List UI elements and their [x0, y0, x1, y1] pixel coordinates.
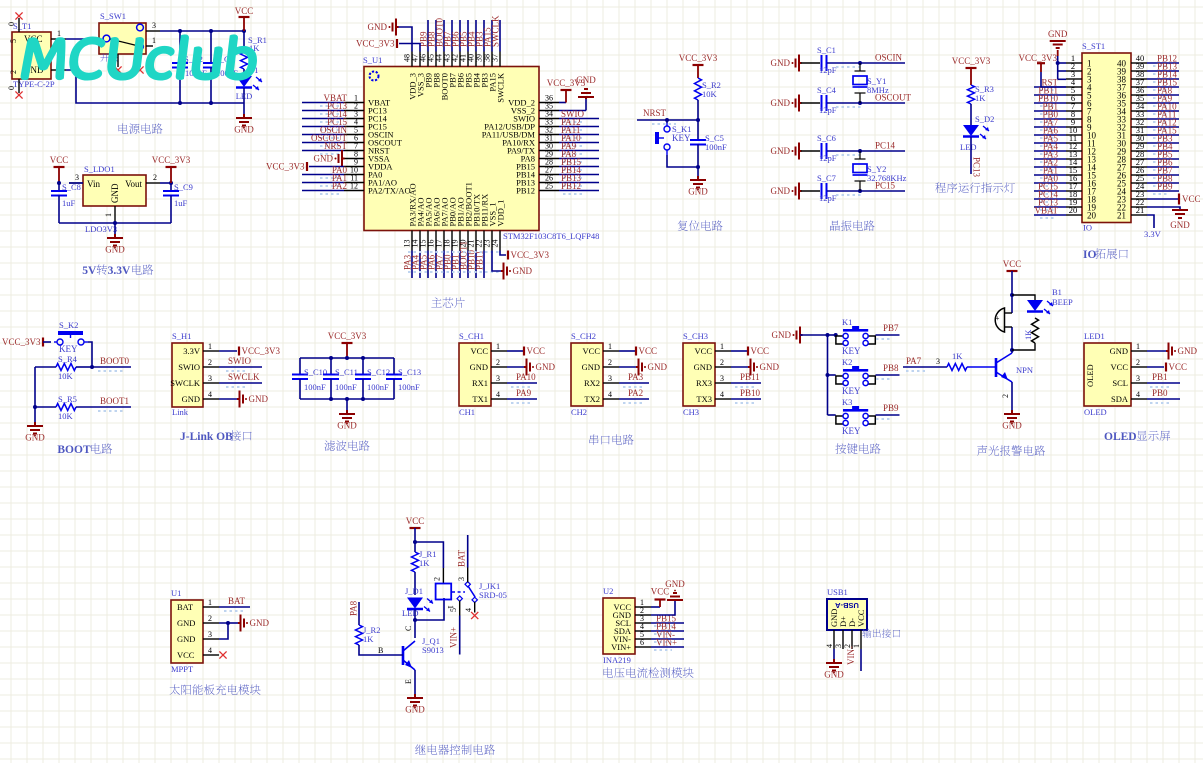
wire and net label PB10 bottom	[475, 251, 477, 279]
wire ST1 pin21 to 3.3V	[1147, 215, 1154, 228]
svg-text:GND: GND	[536, 362, 556, 372]
wire ST1 pin22 to GND	[1147, 207, 1180, 209]
wire and net label PB13	[559, 182, 599, 184]
LED S_D2	[963, 125, 979, 136]
no-connect stub bottom of S_T1	[18, 79, 20, 93]
svg-text:PB12: PB12	[516, 186, 535, 196]
svg-text:Vin: Vin	[87, 179, 100, 189]
wire USB GND	[833, 649, 835, 659]
svg-text:GND: GND	[1110, 346, 1128, 356]
svg-text:PB8: PB8	[883, 363, 899, 373]
title OLED display	[1104, 431, 1170, 443]
wire and net label PC15	[302, 126, 344, 128]
pin 1 of S_H1 (3.3V)	[203, 350, 219, 352]
title J-Link OB port	[180, 430, 252, 443]
wire K1 to PB7	[876, 334, 900, 336]
resistor J_R1 1K	[412, 552, 419, 572]
svg-text:PA9: PA9	[516, 388, 532, 398]
svg-text:3: 3	[720, 374, 724, 383]
power port VCC for LDO	[54, 166, 65, 168]
pin 27 of S_ST1	[1131, 166, 1147, 168]
pin 16 of U1 (PA6/AO)	[435, 231, 437, 251]
wire relay pin3 BAT	[467, 535, 469, 568]
wire left rail BOOT	[34, 367, 36, 422]
svg-text:1: 1	[57, 29, 61, 38]
key K2	[828, 374, 836, 376]
svg-text:VCC: VCC	[751, 346, 770, 356]
power VCC_3V3 at U1 VDD_2	[559, 102, 566, 104]
pin 15 of U1 (PA5/AO)	[427, 231, 429, 251]
svg-text:2: 2	[608, 358, 612, 367]
svg-text:SRD-05: SRD-05	[479, 590, 507, 600]
capacitor S_C4 12pF	[801, 102, 820, 104]
watermark MCUclub	[22, 36, 258, 79]
dotted check marks under chip	[408, 251, 500, 253]
svg-text:3: 3	[208, 630, 212, 639]
wire and net label PB11 bottom	[483, 251, 485, 279]
svg-text:4: 4	[464, 608, 473, 612]
pin 36 of U1 (VDD_2)	[539, 102, 559, 104]
pin 19 of S_ST1	[1066, 206, 1082, 208]
svg-text:2: 2	[1001, 394, 1010, 398]
pin 32 of S_ST1	[1131, 126, 1147, 128]
wire OSCOUT	[827, 102, 905, 104]
pin 35 of U1 (VSS_2)	[539, 110, 559, 112]
key S_K1	[664, 123, 670, 155]
wire R2 to base	[359, 645, 403, 655]
module U2 INA219 body	[603, 598, 635, 654]
svg-text:VCC_3V3: VCC_3V3	[266, 162, 305, 172]
wire and net label PA3 bottom	[411, 251, 413, 279]
junction relay branch	[413, 540, 417, 544]
wire and net label PB6 right	[1147, 166, 1179, 168]
pin 3 of S_CH2 (RX2)	[603, 382, 619, 384]
connector S_CH2 body	[571, 343, 603, 406]
wire and net label PC13 left	[1034, 206, 1066, 208]
junction Y2 top	[858, 149, 862, 153]
pin 1 of S_LDO1	[114, 206, 116, 223]
svg-text:GND: GND	[25, 433, 45, 443]
capacitor S_C6 12pF	[801, 150, 820, 152]
pin 34 of U1 (SWIO)	[539, 118, 559, 120]
svg-text:GND: GND	[1048, 29, 1068, 39]
svg-text:1: 1	[104, 213, 113, 217]
svg-text:12pF: 12pF	[819, 65, 837, 75]
resistor S_R3 1K	[968, 85, 975, 104]
svg-text:3.3V: 3.3V	[1144, 229, 1162, 239]
pin 28 of S_ST1	[1131, 158, 1147, 160]
ground reset	[697, 167, 699, 176]
wire CH3 GND	[731, 366, 748, 368]
pin 38 of S_ST1	[1131, 78, 1147, 80]
resistor 1K alarm	[1032, 318, 1039, 343]
svg-text:1K: 1K	[952, 351, 963, 361]
svg-text:NPN: NPN	[1016, 365, 1033, 375]
pin 25 of U1 (PB12)	[539, 190, 559, 192]
svg-text:VCC: VCC	[639, 346, 658, 356]
pin 29 of S_ST1	[1131, 150, 1147, 152]
pin 3 of S_CH1 (RX1)	[491, 382, 507, 384]
svg-text:0: 0	[7, 22, 16, 26]
pin 14 of S_ST1	[1066, 166, 1082, 168]
svg-text:OSCIN: OSCIN	[875, 53, 903, 63]
ground keys	[797, 327, 803, 344]
svg-text:1K: 1K	[975, 93, 986, 103]
transistor J_Q1 S9013	[402, 646, 405, 665]
svg-text:TX2: TX2	[584, 394, 600, 404]
svg-text:CH2: CH2	[571, 407, 587, 417]
svg-text:OLED: OLED	[1085, 364, 1095, 387]
wire and net label RST left	[1034, 86, 1066, 88]
svg-text:VDD_1: VDD_1	[496, 200, 506, 227]
wire and net label PA9 right	[1147, 102, 1179, 104]
svg-text:CH3: CH3	[683, 407, 699, 417]
svg-text:VCC_3V3: VCC_3V3	[152, 155, 191, 165]
wire and net label PB6 top	[459, 20, 461, 52]
svg-text:GND: GND	[824, 670, 844, 680]
pin 22 of S_ST1	[1131, 206, 1147, 208]
pin 22 of U1 (PB11/RX)	[483, 231, 485, 251]
wire and net label PA9	[559, 150, 599, 152]
title BOOT circuit	[57, 443, 112, 456]
wire K1 bottom to C5	[667, 155, 698, 167]
pin 20 of U1 (PB2/BOOT1)	[467, 231, 469, 251]
svg-text:3: 3	[496, 374, 500, 383]
wire and net label PA10 right	[1147, 110, 1179, 112]
svg-text:21: 21	[1117, 211, 1126, 221]
crystal S_Y2 32.768KHz	[855, 151, 866, 191]
pin 2 of U2 (GND)	[635, 614, 651, 616]
svg-text:1: 1	[496, 342, 500, 351]
wire emitter to GND	[414, 670, 416, 694]
connector USB1 body	[827, 599, 867, 630]
svg-text:3: 3	[936, 357, 940, 366]
junction BOOT0	[90, 365, 94, 369]
svg-text:GND: GND	[576, 75, 596, 85]
wire and net label PA7 left	[1034, 126, 1066, 128]
svg-text:BOOT0: BOOT0	[100, 356, 129, 366]
pin 20 of S_ST1	[1066, 214, 1082, 216]
wire and net label PA15 top	[491, 20, 493, 52]
wire and net label PC14 left	[1034, 198, 1066, 200]
pin 4 of S_H1 (GND)	[203, 398, 219, 400]
pin 6 of S_ST1	[1066, 102, 1082, 104]
svg-text:GND: GND	[694, 362, 712, 372]
svg-text:LED: LED	[960, 142, 977, 152]
svg-text:100nF: 100nF	[304, 382, 326, 392]
connector S_T1 TYPE-C-2P	[12, 32, 51, 79]
junction at C3 top	[209, 29, 213, 33]
wire and net label OSCIN	[302, 134, 344, 136]
svg-text:20: 20	[1087, 211, 1097, 221]
svg-text:SWIO: SWIO	[178, 362, 200, 372]
svg-text:VCC_3V3: VCC_3V3	[356, 39, 395, 49]
junction NRST-K1	[665, 118, 669, 122]
wire and net label PC15 left	[1034, 190, 1066, 192]
svg-text:S_D2: S_D2	[975, 114, 994, 124]
pin 43 of U1 (PB7)	[451, 52, 453, 67]
wire ST1 pins 1-3 to GND top	[1058, 62, 1066, 64]
power VCC_3V3 filter	[342, 342, 353, 344]
junction R5 rail	[33, 405, 37, 409]
pin 7 of S_ST1	[1066, 110, 1082, 112]
svg-text:37: 37	[491, 54, 500, 62]
svg-text:PA2: PA2	[628, 388, 643, 398]
wire bottom rail LDO	[59, 222, 171, 224]
svg-text:2: 2	[433, 577, 442, 581]
wire and net label PB9 right	[1147, 190, 1179, 192]
pin 42 of U1 (PB6)	[459, 52, 461, 67]
pin 33 of U1 (PA12/USB/DP)	[539, 126, 559, 128]
svg-text:S9013: S9013	[422, 645, 444, 655]
transistor Q NPN alarm	[995, 358, 998, 377]
svg-text:VIN+: VIN+	[611, 642, 631, 652]
capacitor S_C5 100nF	[697, 120, 699, 140]
wire USB VCC VIN-	[860, 649, 862, 671]
svg-text:3: 3	[152, 21, 156, 30]
svg-text:VCC_3V3: VCC_3V3	[952, 56, 991, 66]
pin 28 of U1 (PB15)	[539, 166, 559, 168]
title reset circuit	[678, 220, 723, 230]
junction Y2 bottom	[858, 189, 862, 193]
svg-text:GND: GND	[234, 125, 254, 135]
pin 12 of U1 (PA2/TX/AO)	[344, 190, 364, 192]
svg-text:PB9: PB9	[1157, 182, 1173, 192]
wire and net label PB0 bottom	[451, 251, 453, 279]
pin 44 of U1 (BOOT0)	[443, 52, 445, 67]
ground BOOT	[27, 422, 43, 434]
svg-text:GND: GND	[314, 154, 334, 164]
wire and net label PA1	[302, 182, 344, 184]
wire SWIO	[219, 366, 262, 368]
wire LED to PC13	[970, 137, 972, 174]
wire Vout to VCC_3V3 and C9	[160, 182, 171, 184]
no-connect MPPT VCC	[219, 651, 226, 658]
svg-text:K2: K2	[842, 357, 852, 367]
pin 9 of S_ST1	[1066, 126, 1082, 128]
svg-text:NRST: NRST	[324, 141, 348, 151]
ground for S_C1	[796, 55, 802, 72]
svg-text:B1: B1	[1052, 287, 1062, 297]
pin 4 of S_CH3 (TX3)	[715, 398, 731, 400]
svg-text:1uF: 1uF	[174, 198, 188, 208]
pin 4 of MPPT U1 (VCC)	[203, 654, 219, 656]
wire and net label PA15 right	[1147, 134, 1179, 136]
pin 36 of S_ST1	[1131, 94, 1147, 96]
wire LED branch	[1012, 295, 1035, 300]
svg-text:5: 5	[9, 39, 18, 43]
wire K2 to PB8	[876, 374, 900, 376]
svg-text:USB1: USB1	[827, 587, 848, 597]
no-connect pin stubs below S_SW1	[117, 54, 119, 67]
pin 17 of U1 (PA7/AO)	[443, 231, 445, 251]
svg-text:TX1: TX1	[472, 394, 488, 404]
svg-text:S_H1: S_H1	[172, 331, 191, 341]
svg-text:GND: GND	[1170, 220, 1190, 230]
wire and net label PB11 left	[1034, 94, 1066, 96]
pin 4 of S_CH2 (TX2)	[603, 398, 619, 400]
svg-text:GND: GND	[368, 22, 388, 32]
wire and net label PA11	[559, 134, 599, 136]
pin 10 of S_ST1	[1066, 134, 1082, 136]
pin 16 of S_ST1	[1066, 182, 1082, 184]
pin 3 of U1 (PC14)	[344, 118, 364, 120]
svg-text:GND: GND	[177, 618, 195, 628]
pin 2 of S_CH2 (GND)	[603, 366, 619, 368]
title main chip	[431, 297, 464, 307]
wire and net label PB12 right	[1147, 62, 1179, 64]
capacitor S_C2 100nF	[179, 31, 181, 63]
capacitor S_C10 100nF	[299, 358, 301, 374]
wire and net label PB15 right	[1147, 86, 1179, 88]
pin 47 of U1 (VSS_3)	[419, 52, 421, 67]
pin 40 of U1 (PB4)	[475, 52, 477, 67]
wire K2 to BOOT0 node	[88, 342, 92, 367]
wire and net label PB5 right	[1147, 158, 1179, 160]
svg-text:Link: Link	[172, 407, 189, 417]
wire and net label PB10 left	[1034, 102, 1066, 104]
pin 13 of S_ST1	[1066, 158, 1082, 160]
power VCC_3V3 BOOT	[42, 338, 44, 347]
wire CH2 RX net PA3	[619, 382, 649, 384]
wire CH3 RX net PB11	[731, 382, 761, 384]
ground at U1 VSS_2	[559, 110, 586, 112]
wire OLED VCC	[1147, 366, 1164, 368]
svg-text:SCL: SCL	[1112, 378, 1128, 388]
wire and net label PB1 bottom	[459, 251, 461, 279]
pin 3 of S_ST1	[1066, 78, 1082, 80]
svg-text:BAT: BAT	[456, 549, 466, 567]
wire and net label PA2	[302, 190, 344, 192]
svg-text:3: 3	[608, 374, 612, 383]
buzzer B1 BEEP	[995, 308, 1004, 332]
svg-text:VCC_3V3: VCC_3V3	[328, 331, 367, 341]
svg-text:3: 3	[208, 374, 212, 383]
wire K3 to PB9	[876, 414, 900, 416]
pin 9 of U1 (VDDA)	[344, 166, 364, 168]
junction K1 rail	[826, 333, 830, 337]
wire and net label PA6 bottom	[435, 251, 437, 279]
key K3	[828, 414, 836, 416]
wire filter bottom rail	[300, 398, 394, 400]
svg-text:3: 3	[1136, 374, 1140, 383]
svg-text:4: 4	[1136, 390, 1140, 399]
title key circuit	[835, 443, 880, 454]
capacitor S_C11 100nF	[330, 358, 332, 374]
pin 14 of U1 (PA4/AO)	[419, 231, 421, 251]
svg-text:S_C4: S_C4	[817, 85, 837, 95]
title solar module	[170, 684, 261, 695]
svg-text:PB12: PB12	[561, 181, 581, 191]
wire relay pin5 VIN+	[459, 601, 461, 616]
wire and net label BOOT1 bottom	[467, 251, 469, 279]
svg-text:VIN-: VIN-	[846, 646, 856, 665]
pin 29 of U1 (PA8)	[539, 158, 559, 160]
capacitor S_C12 100nF	[362, 358, 364, 374]
svg-text:GND: GND	[648, 362, 668, 372]
wire and net label NRST	[302, 150, 344, 152]
wire CH2 VCC	[619, 350, 635, 352]
wire and net label VBAT left	[1034, 214, 1066, 216]
pin 1 of S_CH2 (VCC)	[603, 350, 619, 352]
svg-text:GND: GND	[182, 394, 200, 404]
svg-text:VCC: VCC	[50, 155, 69, 165]
crystal S_Y1 8MHz	[855, 63, 866, 103]
svg-text:GND: GND	[1178, 346, 1198, 356]
wire U1 pin24 VDD_1 to VCC_3V3	[500, 251, 506, 256]
title IO expander	[1083, 248, 1128, 261]
svg-text:VCC: VCC	[695, 346, 713, 356]
wire CH1 RX net PA10	[507, 382, 537, 384]
pin 8 of U1 (VSSA)	[344, 158, 364, 160]
svg-text:VCC: VCC	[1182, 194, 1201, 204]
pin 5 of U1 (OSCIN)	[344, 134, 364, 136]
svg-text:4: 4	[496, 390, 500, 399]
wire keys left rail	[800, 334, 828, 336]
svg-text:GND: GND	[177, 634, 195, 644]
wire and net label PA2 left	[1034, 166, 1066, 168]
pin 3 of MPPT U1 (GND)	[203, 638, 219, 640]
power VCC alarm	[1007, 270, 1018, 272]
svg-text:S_C8: S_C8	[62, 182, 81, 192]
svg-text:PB11: PB11	[475, 250, 485, 270]
wire and net label PA6 left	[1034, 134, 1066, 136]
wire and net label PA3 left	[1034, 158, 1066, 160]
wire CH1 VCC	[507, 350, 523, 352]
svg-text:S_U1: S_U1	[363, 55, 382, 65]
LED J_D1	[407, 598, 423, 609]
wire and net label PB8 top	[435, 20, 437, 52]
pin 6 of U1 (OSCOUT)	[344, 142, 364, 144]
wire U1 pin47 to VCC_3V3	[399, 44, 420, 52]
ground for S_C6	[796, 143, 802, 160]
svg-text:S_ST1: S_ST1	[1082, 41, 1105, 51]
svg-text:PA7: PA7	[906, 356, 922, 366]
wire and net label PA5 left	[1034, 142, 1066, 144]
svg-text:GND: GND	[249, 394, 269, 404]
svg-text:LED: LED	[402, 608, 419, 618]
svg-text:VCC: VCC	[1111, 362, 1129, 372]
switch S_SW1	[99, 23, 146, 54]
wire BAT net	[219, 606, 250, 608]
svg-text:GND: GND	[250, 618, 270, 628]
pin 23 of U1 (VSS_1)	[491, 231, 493, 251]
pin 19 of U1 (PB1/AO)	[459, 231, 461, 251]
resistor S_R1 1K	[243, 31, 245, 49]
svg-text:3: 3	[457, 577, 466, 581]
pin 31 of S_ST1	[1131, 134, 1147, 136]
svg-text:LDO3V3: LDO3V3	[85, 224, 117, 234]
wire VCC_3V3 to K2	[43, 341, 51, 343]
IC U1 STM32F103C8T6 body	[364, 67, 539, 231]
wire Vin to VCC and C8	[69, 182, 83, 184]
LED B1 blue	[1027, 300, 1043, 311]
wire H1 pin1 to VCC_3V3	[219, 350, 237, 352]
no-connect stub top of S_T1	[18, 18, 20, 32]
wire CH1 GND	[507, 366, 524, 368]
wire and net label PB15	[559, 166, 599, 168]
svg-text:GND: GND	[470, 362, 488, 372]
wire U1 pin23 VSS_1 to GND	[492, 251, 501, 272]
svg-text:1: 1	[208, 598, 212, 607]
pin 1 of U1 (VBAT)	[344, 102, 364, 104]
svg-text:NRST: NRST	[643, 108, 667, 118]
wire and net label OSCOUT	[302, 142, 344, 144]
pin 1 of S_SW1	[146, 45, 153, 47]
pin 25 of S_ST1	[1131, 182, 1147, 184]
svg-text:3.3V: 3.3V	[183, 346, 201, 356]
svg-text:K1: K1	[842, 317, 852, 327]
